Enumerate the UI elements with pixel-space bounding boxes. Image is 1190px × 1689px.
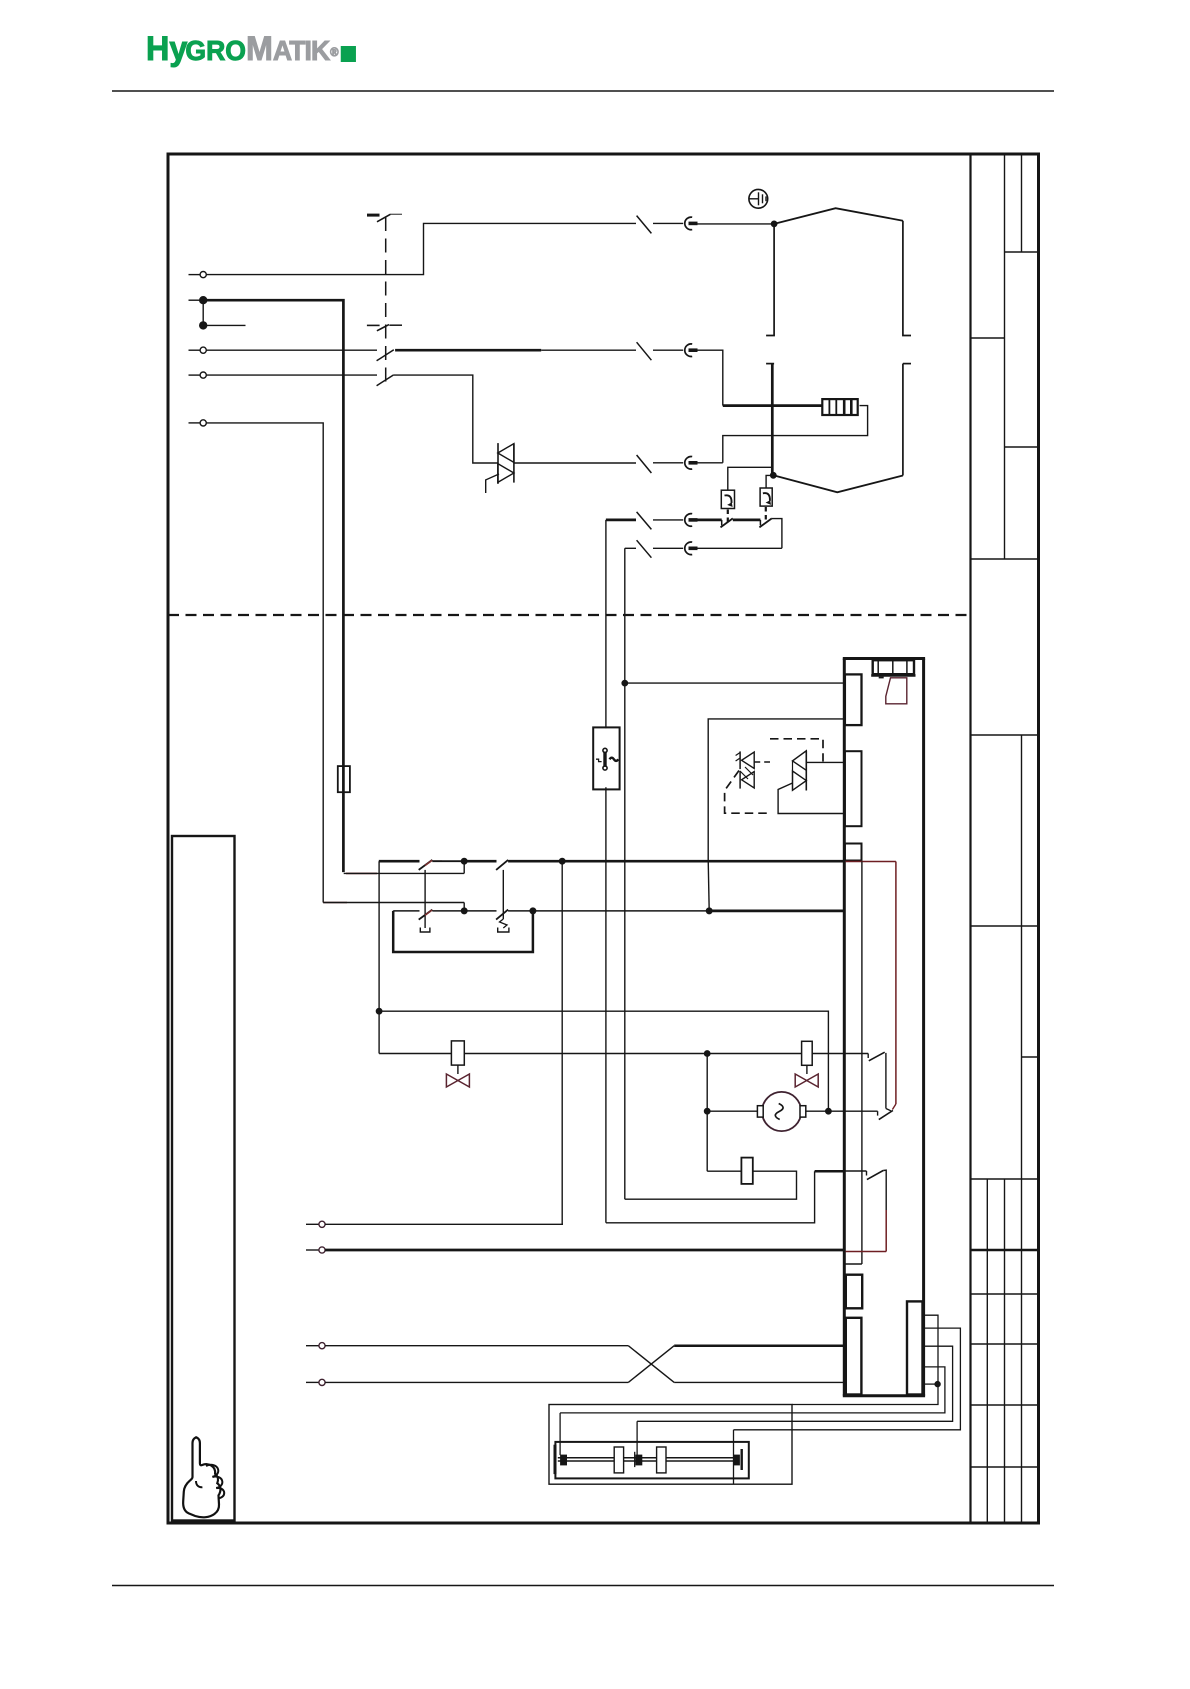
controller sub box B	[845, 751, 862, 826]
sensor wire w3	[637, 1346, 953, 1421]
thermal cutout F5	[760, 488, 772, 506]
contact c2 blade	[879, 1110, 893, 1119]
terminal X1 control	[189, 422, 201, 424]
red trace row1 inside controller	[846, 861, 896, 863]
header rule	[112, 90, 1054, 92]
solenoid valve Y2 stem	[806, 1065, 808, 1074]
title block vertical divider B	[1021, 154, 1023, 252]
wire L1 after fuse	[653, 222, 683, 224]
contact K1-2 blade	[496, 860, 508, 870]
coil drop K1-2	[502, 870, 504, 919]
electrode section 1 left	[766, 224, 774, 336]
wire L3 after triac	[514, 462, 636, 464]
level unit right electrode bar	[741, 1449, 743, 1470]
contact c1 blade	[869, 1052, 885, 1061]
module triac output wire	[806, 761, 844, 763]
connector plug C6	[685, 542, 692, 555]
module triac	[793, 751, 807, 771]
ground symbol PE	[749, 189, 768, 208]
linkage dashes F5	[765, 507, 767, 522]
controller terminal block right	[907, 1301, 923, 1394]
wire x606 bottom link	[606, 1171, 815, 1223]
heater return wire	[723, 406, 868, 463]
controller sub box C	[845, 844, 862, 861]
wire row5 thick segment a	[698, 519, 722, 522]
wire L2 after fuse	[653, 349, 683, 351]
contactor row1 (thick) segment c	[464, 860, 496, 863]
terminal X1 L1	[189, 274, 201, 276]
wire L1 to cylinder	[698, 223, 775, 225]
terminal X2:1	[306, 1223, 319, 1225]
heater element E1	[822, 399, 857, 415]
sensor wire w2	[734, 1328, 961, 1430]
pennant flag	[886, 678, 907, 704]
controller top connector	[873, 660, 914, 674]
NC contact F4 blade	[721, 518, 733, 527]
contact c3 riser (red lower)	[883, 1170, 886, 1210]
node row2 b	[530, 908, 536, 914]
wire x606 lower	[605, 787, 607, 1223]
wire row6	[625, 547, 636, 549]
coil drop K1-1	[424, 870, 426, 928]
coil terminal K1-2	[498, 928, 509, 933]
optocoupler LED	[742, 752, 755, 768]
wire to controller y683	[625, 682, 844, 684]
wire N dot link	[202, 300, 204, 325]
wire x562 vertical	[561, 861, 563, 1224]
drawing frame border	[168, 154, 1039, 1523]
separator dashed line	[168, 614, 970, 616]
level unit lead 1	[559, 1413, 561, 1455]
crossover wires	[628, 1346, 674, 1383]
wire y1011	[379, 1011, 828, 1111]
wire x625 vertical	[624, 683, 626, 1199]
fuse mark F7 row6	[637, 540, 652, 558]
contactor row2 segment a	[393, 910, 419, 912]
node pump left	[705, 1109, 710, 1114]
contactor row2 segment b	[432, 910, 496, 912]
controller board left edge	[843, 659, 846, 1396]
controller terminal block B2	[846, 1318, 862, 1395]
wire crossover to controller lower	[674, 1381, 845, 1383]
wire N (thick)	[207, 300, 344, 872]
contactor row2 thick to controller	[709, 910, 844, 913]
controller sub box A	[845, 674, 862, 725]
triac V1 gate	[486, 474, 499, 493]
pump motor M1	[762, 1092, 801, 1131]
fuse F8	[741, 1158, 752, 1184]
optocoupler photodiode	[742, 772, 755, 788]
level unit bus bar	[558, 1457, 740, 1459]
note column tall box	[172, 836, 235, 1521]
electrode section 2 right foot	[903, 363, 911, 365]
wire x707 vertical	[706, 1054, 708, 1172]
wire x379 vertical	[378, 861, 380, 1053]
terminal X1 N (junction dot)	[189, 299, 200, 301]
sensor wire w5	[925, 1383, 938, 1385]
solenoid valve Y1 coil	[451, 1041, 464, 1065]
optocoupler dashed outline bottom	[725, 771, 769, 814]
wire row5 left vertical	[605, 520, 607, 728]
linkage dashes F4	[727, 510, 729, 525]
contact c3 lead	[844, 1170, 867, 1172]
contact c3 blade	[867, 1171, 883, 1180]
steam cylinder bottom outline	[773, 475, 903, 492]
wire solenoid line right	[812, 1053, 868, 1055]
opto link dashes	[754, 761, 770, 763]
coil terminal K1-1	[420, 928, 430, 933]
wire control corner to row2	[323, 902, 347, 904]
contact K1-3 blade	[419, 910, 433, 920]
wire row6 mid	[653, 547, 683, 549]
node solenoid line	[705, 1051, 710, 1056]
HygroMatik logo	[146, 30, 356, 69]
terminal X2:3	[306, 1345, 319, 1347]
red trace bottom	[846, 1251, 887, 1253]
wire L1 to switch	[206, 223, 636, 274]
title block vertical divider A	[1004, 154, 1006, 559]
terminal X1 L3	[189, 374, 201, 376]
fuse mark F6 row5	[637, 512, 652, 530]
level unit left electrode bar	[554, 1445, 557, 1474]
solenoid valve Y2 coil	[802, 1041, 813, 1065]
sensor wire w1	[792, 1315, 938, 1404]
wire N stub	[203, 324, 245, 326]
wire solenoid line left	[379, 1053, 451, 1055]
level unit clamp 3	[734, 1455, 740, 1465]
connector plug C3	[685, 457, 692, 470]
fuse F9 on N wire	[338, 766, 350, 792]
thermal cutout F5 wire	[766, 475, 773, 488]
electrode section 1 right	[903, 221, 911, 336]
node cylinder bottom	[771, 473, 776, 478]
contact c1 tick	[867, 1054, 869, 1059]
relay module box	[708, 719, 844, 860]
controller terminal block B1	[846, 1275, 862, 1309]
solenoid valve Y2 body	[795, 1074, 818, 1087]
level unit standoff 1	[614, 1447, 623, 1473]
level unit standoff 2	[657, 1447, 666, 1473]
main switch Q1 pole 3	[377, 350, 394, 361]
electrode section 2 left bar	[771, 364, 774, 476]
wire crossover to controller (thick)	[674, 1344, 845, 1347]
contact K1-1 blade	[419, 860, 433, 870]
thermal cutout F4 wire	[728, 467, 772, 490]
contactor row1 segment b	[432, 860, 464, 862]
wire L3 to triac	[394, 375, 498, 463]
fuse mark F2 on L2	[637, 342, 652, 360]
NC contact F5 blade	[759, 518, 771, 527]
node cylinder top	[771, 221, 776, 226]
main switch Q1 pole 4	[377, 375, 394, 386]
wire row5 thick segment b	[733, 519, 761, 522]
title block left edge	[969, 154, 971, 1523]
level unit inner box	[555, 1442, 748, 1479]
contact c1 riser	[885, 1053, 887, 1109]
wire X2:1	[325, 1223, 563, 1225]
node pump right	[826, 1109, 831, 1114]
red segment row1	[433, 860, 443, 862]
wire control feed	[206, 423, 323, 903]
controller board bottom edge	[843, 1394, 925, 1397]
controller board right edge	[922, 659, 925, 1396]
node x379 branch	[376, 1009, 381, 1014]
level sensor B1 probe	[603, 748, 607, 752]
pointing hand symbol	[183, 1437, 224, 1517]
wire X2:4	[325, 1381, 628, 1383]
electrode section 2 right bar	[902, 364, 904, 476]
triac V1	[498, 444, 514, 463]
node row1 b	[559, 858, 565, 864]
contactor row2 segment c	[508, 910, 709, 912]
wire row6 right	[698, 547, 782, 549]
solenoid valve Y1 stem	[457, 1065, 459, 1074]
thermal cutout F4	[721, 490, 734, 508]
wire L2 thin section	[541, 349, 636, 351]
NC contact F5 step	[759, 520, 761, 526]
fuse mark F3 on L3	[637, 455, 652, 473]
node x625 branch	[622, 680, 627, 685]
contact K1-4 blade	[496, 910, 508, 920]
level sensor B1 box	[593, 727, 619, 789]
connector plug C2	[685, 344, 692, 357]
wire into controller y1171 (thick stub)	[815, 1170, 844, 1173]
level unit clamp 1	[561, 1455, 567, 1465]
main switch Q1 pole 1 handle	[367, 214, 380, 217]
main switch Q1 linkage (dashed)	[385, 217, 387, 382]
wire L2 to heater	[698, 350, 723, 405]
contact c3 tick	[866, 1171, 868, 1176]
wire row5 (thick)	[606, 519, 636, 522]
connector plug C5	[685, 514, 692, 527]
wire L3 after fuse	[653, 462, 683, 464]
node row2 a	[461, 908, 467, 914]
contactor coil box K1	[393, 911, 533, 952]
node row2 c	[706, 908, 712, 914]
solenoid valve Y1 body	[446, 1074, 469, 1087]
sensor wire w4	[560, 1367, 945, 1413]
fuse mark F1 on L1	[637, 216, 652, 234]
footer rule	[112, 1585, 1054, 1587]
wire pump right	[806, 1110, 878, 1112]
title block horizontal dividers	[1005, 251, 1039, 253]
module triac gate wire	[778, 783, 844, 814]
fuse F8 return	[625, 1171, 797, 1199]
thermal zigzag K1-2	[500, 919, 508, 928]
wire row5 to row6 link	[772, 519, 782, 549]
level unit clamp 2	[636, 1455, 642, 1465]
node w5	[935, 1382, 940, 1387]
node N lower dot	[200, 322, 207, 329]
wire L3 to heater return	[698, 462, 723, 464]
connector plug C1	[685, 217, 692, 230]
contactor row1 (thick) segment a	[379, 860, 420, 863]
fuse F8 wire	[707, 1170, 741, 1172]
terminal X1 L2	[189, 349, 201, 351]
NC contact F4 step	[721, 520, 723, 526]
red trace vertical to contact 2	[895, 862, 897, 1105]
wire L2 to switch	[206, 349, 377, 351]
level unit lead 2	[636, 1421, 638, 1455]
level unit lead 3	[733, 1430, 735, 1484]
wire L3 to switch	[206, 374, 377, 376]
module box lower vertical	[708, 860, 709, 911]
wire solenoid line mid	[464, 1053, 801, 1055]
optocoupler dashed outline top	[770, 739, 823, 762]
wire N corner to row1 (red start)	[346, 872, 377, 874]
electrode section 2 left foot	[766, 363, 774, 365]
title block vertical divider C	[986, 1179, 988, 1523]
contactor row1 (thick) segment d	[508, 860, 844, 863]
controller board top edge	[843, 657, 925, 660]
terminal X2:2	[306, 1249, 319, 1251]
wire pump left	[707, 1110, 757, 1112]
steam cylinder top outline	[774, 208, 903, 224]
wire row5 mid	[653, 519, 683, 521]
wire row6 left vertical	[624, 548, 626, 683]
terminal X2:4	[306, 1381, 319, 1383]
wire X2:2 (thick)	[325, 1249, 845, 1252]
heater feed wire (thick)	[723, 404, 823, 407]
contact c2 tick	[877, 1111, 879, 1115]
main switch Q1 pole 2	[367, 324, 380, 326]
controller inner vertical	[861, 862, 863, 1265]
wire L2 thick section	[395, 349, 541, 352]
node row1 a	[461, 858, 467, 864]
level unit outer box	[549, 1405, 792, 1485]
level unit tick	[634, 1452, 636, 1467]
wire X2:3	[325, 1345, 628, 1347]
